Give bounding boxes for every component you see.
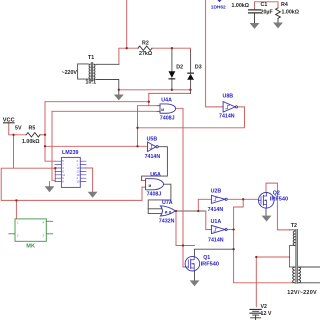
inverter U5B (148, 142, 159, 152)
wire: drop to U1A input (206, 211, 212, 230)
inverter U8B (223, 102, 237, 113)
wire: T2 centre tap (256, 256, 289, 258)
wire: U6A input bracket to MK bus (142, 187, 146, 200)
wire: U2B output to Q2 gate (227, 198, 258, 200)
svg-text:12 V: 12 V (261, 311, 272, 317)
transformer T2 (290, 229, 302, 283)
svg-text:IRF540: IRF540 (201, 261, 219, 267)
ground (LM239 right) (88, 192, 98, 198)
junction: R5 node to U5B line (44, 145, 46, 147)
wire: U1A loop to Q1 drain (195, 249, 234, 256)
wire: top-edge vertical into R2 node (126, 0, 128, 48)
svg-text:7414N: 7414N (208, 207, 224, 213)
wire: line2 to U4A.in2 (52, 110, 160, 112)
svg-text:Q2: Q2 (273, 190, 280, 196)
AND gate U6A (146, 179, 164, 190)
wire: Q1 source to ground (194, 271, 196, 281)
junction: U8B return on U4A riser (136, 127, 138, 129)
svg-text:1DH62: 1DH62 (211, 5, 226, 11)
capacitor C1 (249, 10, 261, 13)
wire: U6A input1 stub (142, 180, 146, 182)
svg-text:и: и (165, 210, 168, 215)
junction: line1 to U4A.in1 riser (148, 101, 150, 103)
wire: U4A.in1 riser (148, 93, 150, 105)
svg-text:D2: D2 (176, 65, 183, 71)
svg-text:1.00kΩ: 1.00kΩ (232, 3, 250, 9)
svg-text:U2B: U2B (211, 189, 222, 195)
wire: D2 cathode lead (171, 79, 173, 90)
diode D2 (169, 71, 176, 79)
ground (C1) (250, 23, 260, 29)
svg-text:R4: R4 (281, 2, 288, 8)
comparator U9 LM239 body (61, 157, 80, 187)
wire: T1 primary loop with ~220V (78, 64, 87, 79)
svg-text:V2: V2 (261, 304, 268, 310)
junction: T2 centre tap / V2 (255, 256, 257, 258)
ground (T1 secondary) (114, 95, 124, 101)
svg-text:U5B: U5B (147, 136, 158, 142)
ground (R4) (273, 23, 283, 29)
wire: MK drop (15, 200, 17, 219)
svg-text:U6A: U6A (150, 172, 161, 178)
svg-text:U8B: U8B (223, 94, 234, 100)
wire: VCC branch detour via left edge to MK bus (1, 168, 141, 200)
junction: U7A output node (175, 210, 177, 212)
wire: T1 secondary bottom lead to ground (97, 80, 119, 95)
OR gate U7A (160, 206, 175, 216)
junction: Q1 gate bracket (182, 244, 184, 246)
AND gate U4A (157, 104, 176, 113)
svg-text:R5: R5 (29, 125, 36, 131)
svg-text:IRF540: IRF540 (270, 197, 288, 203)
junction: MK drop on VCC bus (15, 199, 17, 201)
wire: U2B output descender (234, 199, 292, 282)
junction: Q1 drain loop (232, 248, 234, 250)
svg-text:LM239: LM239 (62, 150, 79, 156)
wire: U5B output S-route to U6A input 1 (142, 147, 168, 181)
svg-text:~220V: ~220V (62, 70, 78, 76)
wire: R2 right to D2/D3 anodes (152, 48, 191, 50)
power VCC symbol (4, 122, 15, 124)
junction: U2B input riser (197, 210, 199, 212)
svg-text:и: и (161, 107, 164, 112)
svg-text:12V/~220V: 12V/~220V (287, 290, 317, 296)
wire: Q2 drain to T2 top (266, 183, 290, 230)
wire: T1 secondary top lead (97, 63, 119, 65)
wire: line B D3 to U4A input 1 (149, 92, 191, 94)
wire: LM239 left pin to ground 1 (49, 182, 51, 187)
battery V2 (250, 309, 261, 320)
wire: U7A output to U2B input (176, 210, 206, 212)
wire: D3 cathode lead (190, 50, 192, 73)
transformer T1 (87, 63, 97, 81)
svg-text:T2: T2 (291, 223, 297, 229)
svg-text:R2: R2 (142, 41, 149, 47)
wire: bracket to Q1 drain stub (183, 245, 195, 247)
wire: T2 centre tap to V2 (255, 257, 257, 307)
wire: U7A input bracket upper stub (148, 208, 161, 210)
svg-text:10:1: 10:1 (86, 80, 97, 86)
wire: Q2 source to ground (265, 208, 267, 216)
wire: U6A output S-route to U7A inputs (148, 184, 171, 213)
svg-text:7414N: 7414N (219, 114, 235, 120)
svg-text:U4A: U4A (161, 98, 172, 104)
wire: U4A output bus down left of Q1 (176, 108, 183, 245)
wire: comparator node vertical (45, 102, 55, 162)
junction: top net at R2 (126, 47, 128, 49)
junction: U2B output / Q2 gate (242, 198, 244, 200)
svg-text:27kΩ: 27kΩ (139, 51, 153, 57)
wire: U8B output return line (138, 107, 245, 128)
inverter U1A (211, 225, 227, 233)
wire: D1 net vertical from top edge to U8B input (206, 0, 224, 107)
LM239 pin numbers (62, 159, 80, 183)
wire: D2 anode lead (171, 48, 173, 71)
svg-text:1.00kΩ: 1.00kΩ (22, 139, 40, 145)
ground (Q1 source) (190, 280, 200, 286)
ground (LM239 left) (45, 186, 55, 192)
wire: U1A output (227, 229, 233, 231)
wire: R5 right lead (40, 134, 45, 136)
wire: top net C1-R4 (255, 2, 279, 10)
LM239 pins (55, 161, 86, 181)
resistor R4 (276, 8, 281, 18)
junction: T1 secondary ground node (118, 89, 120, 91)
junction: D2 cathode rail (171, 89, 173, 91)
svg-text:7414N: 7414N (208, 238, 224, 244)
svg-text:7408J: 7408J (160, 116, 175, 122)
svg-text:7414N: 7414N (145, 154, 161, 160)
junction: VCC branch (12, 134, 14, 136)
svg-text:1.00kΩ: 1.00kΩ (282, 9, 300, 15)
resistor R2 (138, 46, 152, 50)
wire: bracket to Q1 gate (183, 246, 185, 268)
wire: T1 secondary top to R2 (119, 48, 138, 64)
svg-text:T1: T1 (88, 55, 94, 61)
wire: VCC stem to R5 (9, 123, 27, 135)
junction: R2/D2 anode (171, 47, 173, 49)
wire: short branch to LM239 lower pin (54, 168, 56, 181)
svg-text:7408J: 7408J (147, 191, 162, 197)
svg-text:20µF: 20µF (261, 9, 274, 15)
wire: line2 left riser to LM239 pin (52, 111, 55, 180)
junction: D3 rail (189, 89, 191, 91)
wire: line1 comparator bus to U4A.in1 (45, 101, 149, 103)
wire: VCC branch down to LM239 pin3 (14, 135, 56, 168)
wire: riser to U2B input (198, 199, 211, 211)
wire: line A D2/D3 cathode rail (119, 89, 191, 91)
inverter U2B (211, 195, 227, 203)
wire: LM239 right pin to ground 2 (86, 168, 93, 192)
svg-text:U7A: U7A (162, 200, 173, 206)
resistor R5 (26, 133, 40, 137)
wire: D3 anode lead (190, 80, 192, 94)
wire: T2 secondary output wires (300, 267, 320, 283)
svg-text:7432N: 7432N (159, 219, 175, 225)
svg-text:D3: D3 (195, 65, 202, 71)
svg-text:VCC: VCC (3, 118, 15, 124)
svg-text:и: и (149, 183, 152, 188)
diode D3 (187, 73, 194, 80)
junction: U5B input riser (136, 145, 138, 147)
transistor Q2 IRF540 (258, 193, 274, 209)
microcontroller MK (9, 219, 53, 241)
junction: LM239 pin branch (54, 167, 56, 169)
junction: U1A output tie (232, 228, 234, 230)
wire: long line R5 node to U5B input (45, 145, 148, 147)
junction: R5 node (44, 134, 46, 136)
svg-text:Q1: Q1 (203, 255, 210, 261)
svg-text:C1: C1 (261, 2, 268, 8)
svg-text:5V: 5V (15, 125, 22, 131)
svg-text:U1A: U1A (211, 219, 222, 225)
diode D1 fragment at top edge (218, 0, 222, 2)
wire: U4A.in1 left extension down to U5B input (138, 106, 161, 147)
transistor Q1 IRF540 (185, 256, 200, 271)
ground (Q2 source) (262, 216, 272, 222)
svg-text:MK: MK (26, 243, 35, 249)
wire: U7A node vertical down (176, 211, 183, 246)
